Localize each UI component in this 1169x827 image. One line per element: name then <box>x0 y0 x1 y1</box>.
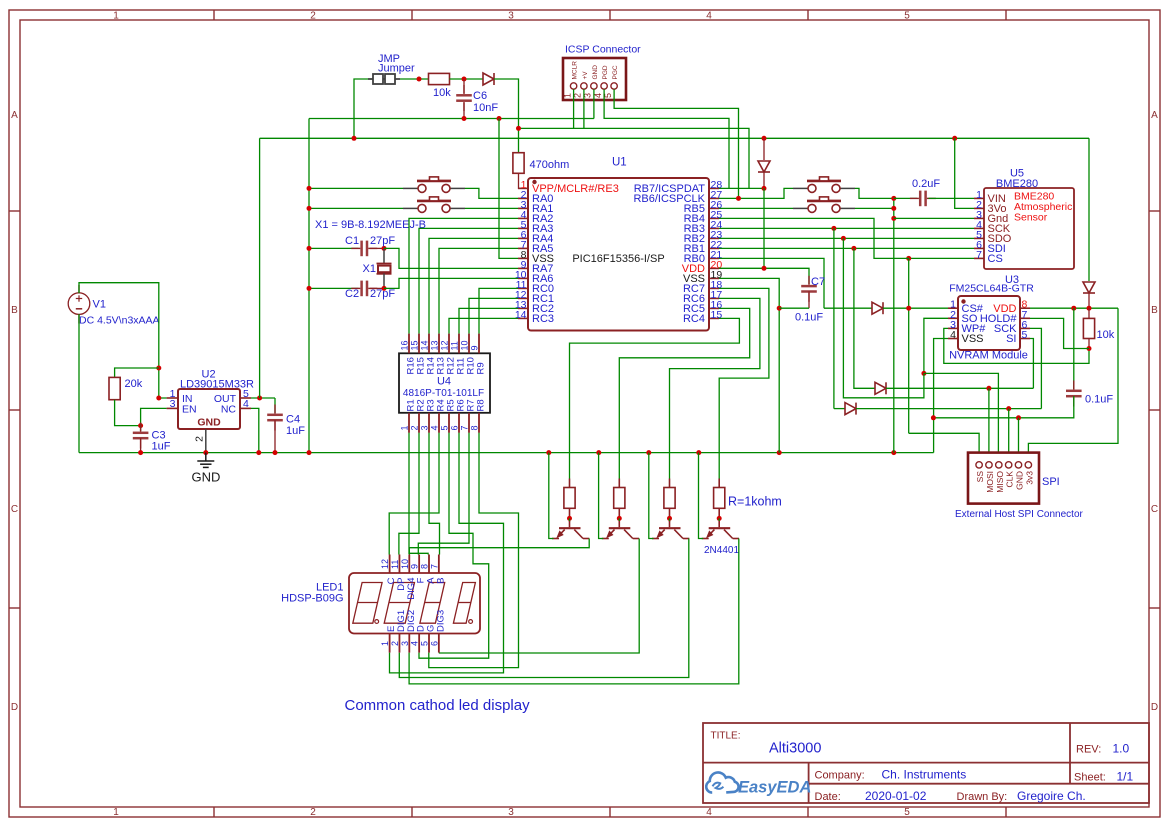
wire C2 to RA6 <box>384 278 518 288</box>
U4 pin 2 R2 <box>418 413 420 433</box>
wire C1 to RA7 <box>384 248 518 268</box>
svg-text:7: 7 <box>976 249 982 261</box>
wire U4p2 to DP <box>399 433 419 555</box>
U2 pin 2 GND <box>205 429 207 453</box>
U4 pin 1 R1 <box>408 413 410 433</box>
R1 stubs <box>569 479 571 488</box>
wire MCLR bus B <box>519 128 750 188</box>
wire Q3 base wire <box>669 518 671 522</box>
junction rail C3 <box>138 450 143 455</box>
svg-text:2: 2 <box>310 807 316 818</box>
wire WP# route <box>944 328 1089 363</box>
U1 pin 20 VDD <box>709 267 719 269</box>
U1 pin 1 VPP/MCLR#/RE3 <box>518 187 528 189</box>
wire RB3-SCK row <box>719 227 974 229</box>
wire NC stub down <box>251 408 259 452</box>
junction C2 gnd node <box>307 286 312 291</box>
wire pin28 row <box>719 187 764 189</box>
svg-text:FM25CL64B-GTR: FM25CL64B-GTR <box>949 283 1034 295</box>
svg-text:ICSP Connector: ICSP Connector <box>565 44 641 56</box>
svg-text:NC: NC <box>221 403 237 415</box>
wire VDD20 row <box>719 268 809 284</box>
junction C1-X1 node <box>382 246 387 251</box>
U1 pin 8 VSS <box>518 257 528 259</box>
wire RC4 to Q1 <box>570 318 740 478</box>
svg-text:CLK: CLK <box>1005 471 1015 488</box>
svg-text:3: 3 <box>508 807 514 818</box>
resistor R2 1k base <box>614 488 625 509</box>
wire VDD to jumper <box>354 79 373 138</box>
svg-text:Sheet:: Sheet: <box>1074 772 1106 784</box>
wire 20k bottom <box>115 400 141 426</box>
svg-text:DIG3: DIG3 <box>435 610 446 632</box>
wire D4 to VDD node <box>1088 293 1090 308</box>
wire VSS8 feed <box>499 119 518 259</box>
U4 pin 10 R10 <box>468 334 470 354</box>
svg-text:12: 12 <box>380 559 390 569</box>
U1 pin 9 RA7 <box>518 267 528 269</box>
svg-text:PGC: PGC <box>612 65 619 79</box>
svg-text:7: 7 <box>460 425 470 430</box>
wire U3 VDD row <box>1030 307 1118 309</box>
SPI pin 3v3 <box>1025 462 1031 468</box>
junction rail U2 GND <box>203 450 208 455</box>
transistor Q3 2N4401 <box>652 521 689 539</box>
svg-text:20k: 20k <box>125 378 143 390</box>
svg-text:27pF: 27pF <box>370 288 395 300</box>
svg-text:1: 1 <box>113 11 119 22</box>
svg-text:10nF: 10nF <box>473 102 498 114</box>
wire C2 right <box>370 287 384 289</box>
U2 pin 4 NC <box>240 407 251 409</box>
wire btn1 left <box>309 187 403 189</box>
svg-text:6: 6 <box>450 425 460 430</box>
svg-text:Common cathod led display: Common cathod led display <box>345 697 531 714</box>
wire ICSP MCLR down <box>573 89 575 128</box>
svg-text:U1: U1 <box>612 157 627 169</box>
svg-text:C4: C4 <box>286 414 300 426</box>
junction MISO node <box>921 371 926 376</box>
junction VDD-D2 node <box>762 266 767 271</box>
junction busC D2 node <box>762 136 767 141</box>
U5 pin 3 Gnd <box>974 217 984 219</box>
wire ICSP GND down <box>593 89 595 118</box>
wire GND rail <box>79 452 934 454</box>
wire CS row right <box>883 307 948 309</box>
wire VIN wire left <box>894 197 917 199</box>
wire RC2 to U4p11 <box>459 308 518 333</box>
svg-text:BME280: BME280 <box>996 178 1038 190</box>
svg-text:RC3: RC3 <box>532 313 554 325</box>
resistor R 10k pullup2 <box>1083 318 1094 338</box>
svg-text:MOSI: MOSI <box>985 471 995 493</box>
svg-text:0.2uF: 0.2uF <box>912 178 940 190</box>
junction U5 gnd node <box>891 216 896 221</box>
wire RB1-SDI row <box>719 247 974 249</box>
wire ICSP PGD route <box>604 89 729 188</box>
wire RB2-SDO row <box>719 237 974 239</box>
push button S4 <box>793 197 855 213</box>
capacitor C4 1uF <box>267 415 283 420</box>
svg-text:6: 6 <box>429 641 439 646</box>
wire VDD riser <box>259 138 261 398</box>
junction 10k-C6 node <box>462 77 467 82</box>
junction SPI GND node <box>1016 415 1021 420</box>
SPI pin SS <box>976 462 982 468</box>
U4 pin 8 R8 <box>478 413 480 433</box>
wire GND left rail vertical <box>308 119 310 453</box>
U1 pin 24 RB3 <box>709 227 719 229</box>
wire Q3 collector to DIG1 <box>399 539 689 678</box>
ICSP pin 2 +V <box>581 83 587 89</box>
U1 pin 3 RA1 <box>518 207 528 209</box>
svg-text:A: A <box>1151 110 1158 121</box>
svg-text:3: 3 <box>508 11 514 22</box>
wire 470 to pin1 <box>519 173 529 188</box>
diode D6 MOSI <box>875 382 886 394</box>
resistor R 20k <box>109 377 120 399</box>
IC U3 FM25CL64B-GTR <box>958 296 1020 350</box>
U1 pin 7 RA5 <box>518 247 528 249</box>
U1 pin 16 RC5 <box>709 307 719 309</box>
svg-text:2: 2 <box>410 425 420 430</box>
SPI pin MOSI <box>986 462 992 468</box>
U1 pin 2 RA0 <box>518 197 528 199</box>
svg-text:SI: SI <box>1006 333 1016 345</box>
svg-text:1: 1 <box>562 93 572 98</box>
svg-text:D: D <box>11 702 18 713</box>
U1 pin 10 RA6 <box>518 277 528 279</box>
diode D4 <box>1083 282 1095 293</box>
svg-text:10: 10 <box>400 559 410 569</box>
junction rail VSS19 <box>777 450 782 455</box>
U2 pin 5 OUT <box>240 397 251 399</box>
wire C1 right <box>370 247 384 249</box>
svg-text:4816P-T01-101LF: 4816P-T01-101LF <box>403 388 484 399</box>
wire C7 gnd stub <box>779 307 809 309</box>
svg-text:B: B <box>1151 305 1158 316</box>
wire C4 bottom <box>274 420 276 453</box>
svg-text:10k: 10k <box>1097 329 1115 341</box>
wire U4p3 to B <box>429 433 440 555</box>
LED1 pin 7 B <box>438 555 440 574</box>
SPI pin CLK <box>1005 462 1011 468</box>
wire Q4 collector to DIG2 <box>409 539 739 684</box>
wire SPI CLK drop <box>1008 409 1010 462</box>
wire btn3 right <box>855 188 894 198</box>
junction btn1r node <box>891 196 896 201</box>
U5 pin 5 SDO <box>974 237 984 239</box>
diode D3 CS <box>872 302 883 314</box>
wire btn2 left <box>309 207 403 209</box>
svg-text:1: 1 <box>400 425 410 430</box>
svg-text:0.1uF: 0.1uF <box>1085 394 1113 406</box>
wire HOLD# jog <box>1030 318 1089 348</box>
svg-text:X1: X1 <box>363 263 376 275</box>
svg-text:14: 14 <box>515 309 527 321</box>
resistor R4 1k base <box>714 488 725 509</box>
LED1 pin 9 F <box>418 555 420 574</box>
wire U4p8 to G <box>429 433 519 668</box>
capacitor C6 10nF <box>456 95 472 100</box>
wire RC5 to Q2 <box>619 308 749 478</box>
junction CLK node <box>1006 406 1011 411</box>
LED1 digit 1 <box>353 583 382 624</box>
junction rail NC <box>256 450 261 455</box>
wire rail up to U3 VSS <box>934 339 948 453</box>
svg-text:A: A <box>11 110 18 121</box>
wire ICSP +V down <box>583 89 585 128</box>
wire U4p1 to A <box>409 433 428 555</box>
svg-text:11: 11 <box>390 560 400 569</box>
svg-text:15: 15 <box>410 340 420 350</box>
wire U5 CS feed <box>909 257 974 259</box>
wire C1 left <box>309 247 359 249</box>
svg-text:PGD: PGD <box>602 65 609 79</box>
LED1 pin 6 DIG3 <box>438 634 440 653</box>
wire RB0 to CS row <box>719 258 824 308</box>
svg-text:SPI: SPI <box>1042 476 1060 488</box>
U4 pin 12 R12 <box>448 334 450 354</box>
junction OUT node <box>257 396 262 401</box>
U2 pin 1 IN <box>167 397 178 399</box>
svg-text:C: C <box>1151 504 1158 515</box>
LED1 pin 4 D <box>418 634 420 653</box>
U4 pin 5 R5 <box>448 413 450 433</box>
svg-text:9: 9 <box>410 564 420 569</box>
U4 pin 9 R9 <box>478 334 480 354</box>
U1 pin 14 RC3 <box>518 317 528 319</box>
capacitor C1 27pF <box>362 241 367 257</box>
crystal X1 <box>383 248 385 263</box>
diode D5 CLK <box>845 403 856 415</box>
wire RB4 row <box>719 218 909 258</box>
U5 pin 2 3Vo <box>974 207 984 209</box>
wire VDD to 3v3 <box>1028 308 1118 462</box>
wire C3 bottom <box>140 438 142 453</box>
ICSP pin 4 PGD <box>601 83 607 89</box>
svg-text:3: 3 <box>170 398 176 410</box>
svg-text:Company:: Company: <box>815 770 865 782</box>
U1 pin 21 RB0 <box>709 257 719 259</box>
svg-text:B: B <box>11 305 18 316</box>
push button S2 <box>403 197 465 213</box>
U1 pin 22 RB1 <box>709 247 719 249</box>
wire 0.1uF bottom <box>933 396 1073 418</box>
svg-text:C2: C2 <box>345 288 359 300</box>
U1 pin 28 RB7/ICSPDAT <box>709 187 719 189</box>
svg-text:R9: R9 <box>476 362 487 374</box>
U3 pin 7 HOLD# <box>1020 317 1030 319</box>
svg-text:1uF: 1uF <box>286 425 305 437</box>
capacitor C 0.2uF <box>920 191 925 207</box>
LED1 pin 10 DIG4 <box>408 555 410 574</box>
U4 pin 14 R14 <box>428 334 430 354</box>
wire Q1 emitter to GND <box>549 453 554 539</box>
wire VSS19 down <box>719 278 779 452</box>
svg-text:1: 1 <box>380 641 390 646</box>
wire btn4 right <box>855 207 894 209</box>
junction busC 3Vo node <box>952 136 957 141</box>
U4 pin 15 R15 <box>418 334 420 354</box>
svg-text:GND: GND <box>197 417 221 429</box>
U1 pin 5 RA3 <box>518 227 528 229</box>
svg-text:REV:: REV: <box>1076 743 1101 755</box>
svg-text:1/1: 1/1 <box>1117 770 1134 784</box>
LED1 pin 12 C <box>389 555 391 574</box>
LED1 pin 2 DIG1 <box>398 634 400 653</box>
svg-text:1uF: 1uF <box>152 441 171 453</box>
LED1 pin 1 E <box>389 634 391 653</box>
junction SDI branch <box>851 246 856 251</box>
wire VIN wire right <box>929 197 974 199</box>
svg-text:V1: V1 <box>93 299 106 311</box>
LED1 digit 2 <box>384 583 414 624</box>
svg-text:R8: R8 <box>476 399 487 411</box>
wire 0.1uF top <box>1073 308 1075 389</box>
wire Q2 collector to DIG3 <box>439 539 639 654</box>
U3 pin 6 SCK <box>1020 327 1030 329</box>
svg-text:MISO: MISO <box>995 471 1005 493</box>
wire Q2 emitter to GND <box>599 453 604 539</box>
wire 10k to diode <box>450 78 484 80</box>
svg-text:Ch. Instruments: Ch. Instruments <box>882 768 967 782</box>
svg-text:NVRAM Module: NVRAM Module <box>949 350 1028 362</box>
U1 pin 18 RC7 <box>709 287 719 289</box>
svg-text:MCLR: MCLR <box>572 61 579 80</box>
wire MISO to SPI <box>924 373 999 461</box>
junction Q1 base node <box>567 516 572 521</box>
wire MOSI row right <box>886 387 1033 389</box>
wire 10k stub bottom <box>1088 339 1090 349</box>
wire 20k top <box>115 368 159 377</box>
U1 pin 27 RB6/ICSPCLK <box>709 197 719 199</box>
LED1 pin 5 G <box>428 634 430 653</box>
svg-text:R=1kohm: R=1kohm <box>728 495 782 509</box>
U4 pin 11 R11 <box>458 334 460 354</box>
resistor R 470ohm <box>513 153 524 174</box>
push button S3 <box>793 177 855 193</box>
EasyEDA logo <box>706 772 738 792</box>
wire VDD bus C <box>260 137 1089 139</box>
svg-text:1: 1 <box>113 807 119 818</box>
wire OUT to VDD riser <box>251 397 275 399</box>
wire busC right down <box>1088 138 1090 281</box>
LED1 pin 3 DIG2 <box>408 634 410 653</box>
svg-text:3: 3 <box>400 641 410 646</box>
U2 pin 3 EN <box>167 407 178 409</box>
transistor Q2 2N4401 <box>602 521 639 539</box>
wire SPI GND drop <box>1018 418 1020 462</box>
junction rail C4 <box>273 450 278 455</box>
diode D1 series <box>483 73 494 85</box>
junction btn2 gnd node <box>307 206 312 211</box>
wire RA3 to U4p15 <box>419 228 518 333</box>
wire MOSI col <box>854 248 875 388</box>
svg-text:GND: GND <box>592 65 599 80</box>
junction 20k top node <box>156 366 161 371</box>
wire EN wire <box>141 408 167 431</box>
wire SO route <box>924 318 948 373</box>
svg-text:D: D <box>1151 702 1158 713</box>
U4 pin 4 R4 <box>438 413 440 433</box>
regulator U2 LD39015M33R <box>178 389 240 429</box>
wire 3Vo riser <box>955 138 974 208</box>
svg-text:4: 4 <box>706 11 712 22</box>
SPI pin MISO <box>996 462 1002 468</box>
svg-text:3v3: 3v3 <box>1024 471 1034 485</box>
U5 pin 7 CS <box>974 257 984 259</box>
capacitor C7 0.1uF <box>801 286 817 291</box>
svg-text:EasyEDA: EasyEDA <box>738 779 811 797</box>
U4 pin 13 R13 <box>438 334 440 354</box>
U4 pin 7 R7 <box>468 413 470 433</box>
svg-text:10k: 10k <box>433 87 451 99</box>
U5 pin 6 SDI <box>974 247 984 249</box>
wire D2 bottom <box>763 172 765 188</box>
wire 10k stub top <box>1088 308 1090 318</box>
svg-text:5: 5 <box>420 641 430 646</box>
wire U3 SI route <box>1030 339 1033 389</box>
junction MOSI node <box>986 386 991 391</box>
wire RC7 to Q4 <box>719 288 769 478</box>
R3 stubs <box>669 479 671 488</box>
resistor R3 1k base <box>664 488 675 509</box>
svg-text:2: 2 <box>310 11 316 22</box>
svg-text:3: 3 <box>420 425 430 430</box>
wire btn4 left RB5 <box>719 207 793 209</box>
svg-text:2020-01-02: 2020-01-02 <box>865 789 927 803</box>
svg-text:4: 4 <box>950 329 956 341</box>
svg-text:14: 14 <box>420 340 430 350</box>
transistor Q4 2N4401 <box>702 521 739 539</box>
wire D2 to VDD row <box>763 188 765 268</box>
SPI pin GND <box>1015 462 1021 468</box>
junction rail Q3 e <box>646 450 651 455</box>
svg-text:15: 15 <box>711 309 723 321</box>
wire RC1 to U4p10 <box>469 298 518 333</box>
LED1 pin 11 DP <box>398 555 400 574</box>
wire btn2 right to RA1 <box>465 207 518 209</box>
wire jumper to 10k <box>400 78 428 80</box>
U1 pin 25 RB4 <box>709 217 719 219</box>
svg-text:13: 13 <box>430 340 440 350</box>
junction busA C6 node <box>462 116 467 121</box>
junction CS-RB4 node <box>906 256 911 261</box>
wire C4 top <box>274 398 276 413</box>
wire CS row left <box>824 307 872 309</box>
svg-text:2: 2 <box>390 641 400 646</box>
svg-text:External Host SPI Connector: External Host SPI Connector <box>955 509 1084 520</box>
wire U4p5 to D <box>419 433 489 658</box>
junction VDD cap node <box>1071 306 1076 311</box>
LED1 pin 8 A <box>428 555 430 574</box>
jumper JMP <box>368 74 400 84</box>
ICSP pin 3 GND <box>591 83 597 89</box>
LED1 digit 4 <box>453 583 475 624</box>
wire btn GND column <box>893 198 895 452</box>
svg-text:16: 16 <box>400 340 410 350</box>
U4 pin 3 R3 <box>428 413 430 433</box>
sensor U5 BME280 <box>984 188 1074 269</box>
junction IN node <box>156 396 161 401</box>
connector SPI J2 <box>968 453 1039 504</box>
junction rail Q4 e <box>696 450 701 455</box>
wire RA2 to U4p16 <box>409 218 518 333</box>
svg-text:C7: C7 <box>811 276 825 288</box>
diode D2 <box>758 161 770 172</box>
svg-text:1.0: 1.0 <box>1113 741 1130 755</box>
